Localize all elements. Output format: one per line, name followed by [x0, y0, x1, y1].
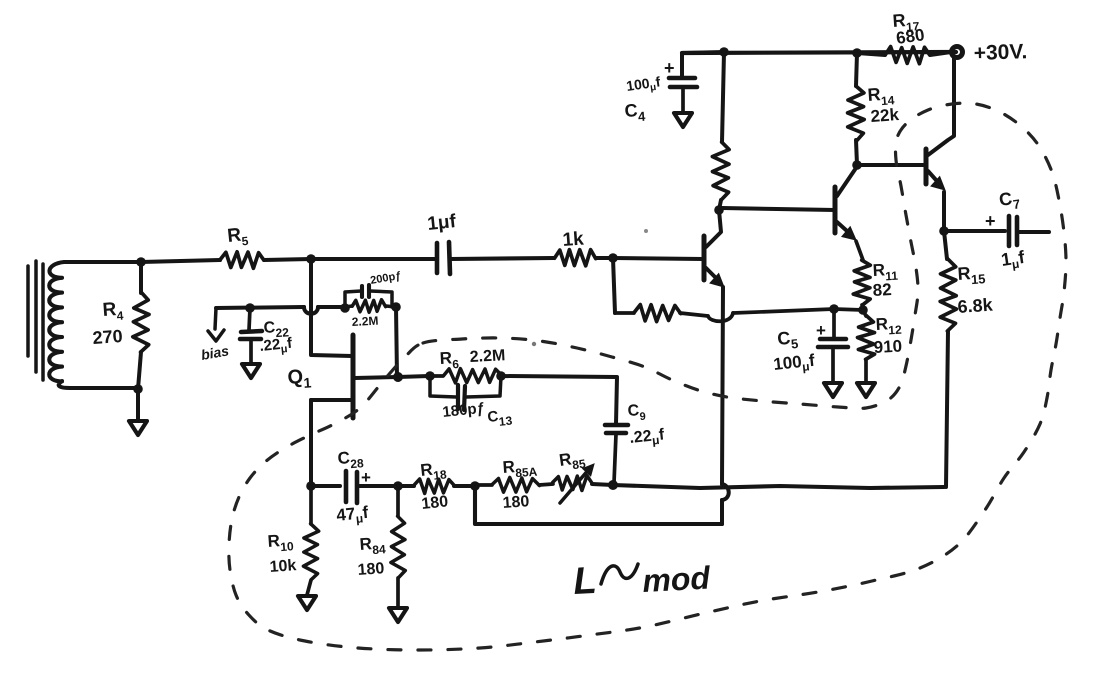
wire R6 right to C9 — [501, 376, 617, 424]
wire node A to cap 1uf — [311, 257, 437, 261]
Q4 emitter arrow — [931, 177, 945, 191]
resistor 2.2M — [345, 306, 352, 307]
transistor Q3 base bar — [833, 187, 838, 233]
junction dot R4 bottom — [133, 384, 143, 394]
wire node A down to gate — [311, 259, 352, 356]
svg-text:180: 180 — [357, 560, 385, 579]
wire C9 node to R15 bottom — [613, 485, 944, 488]
junction dot node D — [852, 160, 862, 170]
junction dot C22 top — [245, 303, 255, 313]
transformer T1 core lines — [26, 266, 30, 356]
hop of emitter wire over W1 — [722, 484, 729, 500]
resistor R15 6.8k — [944, 231, 947, 259]
capacitor C4 — [669, 76, 695, 81]
resistor collector load — [712, 142, 729, 200]
wire drain node to R6 — [398, 376, 429, 377]
resistor R85 trimmer — [553, 476, 592, 491]
wire R4 bottom to ground — [136, 389, 140, 421]
junction dot R85A left — [470, 481, 480, 491]
capacitor C5 — [832, 309, 836, 338]
svg-text:1μf: 1μf — [426, 211, 457, 235]
wire resistor to dip — [680, 313, 708, 316]
svg-text:2.2M: 2.2M — [351, 314, 378, 329]
Q4 emitter — [928, 171, 936, 180]
dip of wire under Q2 emitter line — [708, 313, 733, 321]
ground under C4 — [674, 113, 692, 127]
wire 1k to node B — [596, 256, 613, 260]
capacitor C22 — [249, 308, 250, 330]
svg-text:270: 270 — [92, 326, 123, 348]
junction dot C5 top — [829, 304, 839, 314]
svg-text:6.8k: 6.8k — [957, 295, 994, 317]
wire 2.2M right down to drain node — [396, 307, 397, 377]
wire R18 to R85A node — [454, 484, 475, 488]
junction dot R6 right — [496, 371, 506, 381]
power rail +30V — [682, 52, 956, 53]
wire Q2 emitter down — [722, 287, 723, 484]
wire C5 node to R11 node — [834, 309, 863, 310]
wire cap to 1k — [450, 258, 554, 259]
svg-text:22k: 22k — [870, 105, 900, 126]
+30V terminal circle — [952, 47, 963, 58]
wire Q1 source down to C28 node — [309, 400, 313, 486]
Q1 source lead — [311, 398, 353, 402]
svg-text:+: + — [361, 468, 371, 487]
svg-text:+: + — [985, 211, 996, 231]
resistor R14 22k — [856, 53, 857, 86]
capacitor C7 — [1007, 216, 1012, 246]
Q3 emitter arrow — [842, 227, 856, 240]
svg-text:180: 180 — [421, 493, 449, 513]
wire R84 to ground — [396, 578, 400, 607]
capacitor C13 loop — [430, 376, 456, 397]
Q2 emitter arrow — [710, 274, 724, 288]
node B junction dot — [608, 253, 618, 263]
wire dip to C5 node — [733, 309, 834, 313]
hop of bias wire over node-A wire — [304, 307, 318, 314]
Q2 collector — [706, 210, 721, 247]
capacitor 200pf loop — [345, 291, 361, 307]
capacitor C28 — [311, 484, 340, 488]
node A junction dot — [306, 254, 316, 264]
ground under R12 — [857, 383, 875, 397]
wire rail to C4 — [682, 52, 724, 77]
wire R85A node down and right — [475, 486, 722, 524]
R85 trimmer arrow — [560, 468, 590, 503]
resistor R11 82 — [853, 260, 870, 305]
wire R10 to ground — [307, 580, 311, 595]
svg-text:2.2M: 2.2M — [469, 347, 505, 366]
Q3 collector — [837, 168, 856, 196]
resistor R12 910 — [863, 310, 866, 316]
junction dot node C — [714, 205, 724, 215]
resistor unlabeled feedback — [615, 311, 634, 315]
resistor R10 10k — [303, 524, 318, 580]
transistor Q2 base bar — [702, 236, 707, 280]
junction dot output node — [939, 226, 949, 236]
transistor Q4 base bar — [924, 149, 929, 184]
junction dot C9 bottom node — [608, 480, 618, 490]
wire hop to 2.2M node — [318, 305, 345, 309]
svg-text:1k: 1k — [562, 229, 585, 251]
svg-text:82: 82 — [872, 280, 892, 300]
svg-text:mod: mod — [641, 559, 712, 599]
junction dot R11 R12 — [858, 305, 868, 315]
resistor R17 680 — [857, 53, 885, 55]
wire Q4 emitter down — [942, 192, 946, 231]
svg-text:910: 910 — [873, 337, 902, 357]
junction dot 2.2M left — [340, 303, 350, 313]
junction dot 2.2M right — [391, 302, 401, 312]
capacitor C9 — [605, 423, 628, 428]
transistor Q1 bar — [351, 335, 356, 418]
resistor R85A 180 — [475, 483, 492, 487]
svg-text:L: L — [572, 560, 597, 603]
wire transformer to R5 — [141, 260, 220, 262]
wire R84 top — [396, 486, 400, 516]
junction dot R84 top — [393, 481, 403, 491]
ground under R84 — [389, 608, 407, 622]
svg-text:10k: 10k — [269, 557, 297, 576]
wire resistor to node C — [719, 200, 721, 210]
ground under C22 — [242, 364, 260, 378]
wire C28 node down R10 — [309, 486, 313, 524]
resistor R18 180 — [413, 479, 454, 494]
junction dot C28 left — [306, 481, 316, 491]
speck — [532, 342, 536, 346]
svg-text:+: + — [816, 321, 826, 340]
capacitor 1uf plates — [435, 243, 440, 273]
resistor 1k — [555, 250, 596, 266]
wire rail down to resistor — [722, 52, 724, 142]
junction dot Q1 drain node — [393, 372, 403, 382]
wire node D to Q4 base — [857, 163, 926, 167]
resistor R4 270 — [139, 262, 143, 293]
svg-text:+: + — [664, 58, 675, 78]
svg-text:180: 180 — [502, 493, 530, 512]
wire output node to C7 — [944, 229, 1005, 233]
resistor R5 — [220, 252, 263, 268]
ground under R10 — [298, 596, 316, 610]
wire R85 to C9 node — [592, 484, 613, 485]
junction dot rail right — [852, 48, 862, 58]
junction dot R6 left — [425, 371, 435, 381]
ground under R4 — [129, 421, 147, 435]
svg-text:+30V.: +30V. — [973, 40, 1027, 65]
transformer T1 winding — [49, 262, 141, 388]
dashed LN mod outline — [229, 103, 1066, 650]
wire bias line — [216, 307, 304, 308]
wire node B to Q2 base — [613, 258, 703, 259]
wire node C to Q3 base — [722, 208, 835, 210]
resistor R6 2.2M — [430, 374, 443, 378]
junction dot R4 top — [136, 257, 146, 267]
svg-text:680: 680 — [895, 25, 926, 48]
ground under C5 — [824, 383, 842, 397]
Q2 emitter — [706, 268, 717, 279]
wire node B down — [613, 258, 615, 313]
Q3 emitter — [837, 222, 847, 231]
resistor R84 180 — [391, 516, 405, 577]
bias terminal arrow — [215, 308, 216, 329]
wire R5 to node A — [264, 259, 311, 260]
wire emitter hop to W2 — [720, 500, 724, 524]
wire Q3 emitter to R11 — [856, 241, 863, 260]
Q4 collector — [928, 57, 954, 155]
junction dot rail left — [719, 47, 729, 57]
Q1 drain lead — [355, 377, 397, 378]
